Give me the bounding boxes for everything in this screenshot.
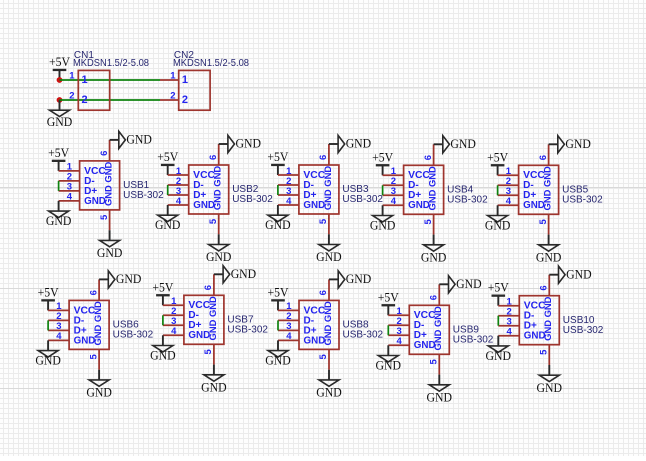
wire D+/D- jumper at USB2	[167, 185, 169, 195]
svg-text:4: 4	[397, 336, 403, 347]
junction dot node +5V	[57, 77, 63, 83]
connector USB10 body	[519, 296, 559, 345]
ground at pin 5 of USB5	[536, 235, 562, 265]
connector USB4 body	[404, 165, 444, 214]
ground at pin 6 of USB7	[214, 266, 256, 283]
svg-text:GND: GND	[116, 272, 142, 286]
part labels USB9 USB-302	[453, 325, 494, 346]
+5V supply for USB4	[372, 150, 393, 175]
wire pin 6 of USB3	[328, 144, 330, 165]
svg-text:GND: GND	[126, 133, 152, 147]
svg-text:5: 5	[539, 349, 550, 355]
svg-text:GND: GND	[486, 349, 512, 363]
svg-text:4: 4	[507, 327, 513, 338]
wire pin 6 of USB10	[548, 275, 550, 296]
svg-text:GND: GND	[47, 115, 73, 129]
svg-text:MKDSN1.5/2-5.08: MKDSN1.5/2-5.08	[173, 58, 249, 69]
wire pin 5 of USB10	[548, 345, 550, 365]
svg-text:5: 5	[538, 218, 549, 224]
wire pin 6 of USB8	[328, 279, 330, 300]
wire pin 6 of USB9	[438, 284, 440, 305]
wire pin 6 of USB7	[213, 274, 215, 295]
pin number 5 of USB3	[318, 218, 329, 224]
ground at pin 4 of USB1	[46, 201, 72, 228]
pin numbers 1-4 of USB7	[171, 296, 177, 337]
+5V supply for USB5	[487, 150, 508, 175]
svg-text:USB-302: USB-302	[123, 190, 164, 201]
pin numbers of CN2	[170, 71, 176, 102]
svg-text:4: 4	[286, 331, 292, 342]
svg-text:GND: GND	[450, 137, 476, 151]
svg-text:1: 1	[82, 74, 88, 86]
svg-text:1: 1	[69, 71, 75, 82]
wire pin 5 of USB1	[109, 210, 111, 230]
wire pin 5 of USB7	[213, 344, 215, 364]
svg-text:4: 4	[56, 331, 62, 342]
svg-text:GND: GND	[155, 218, 181, 232]
svg-text:2: 2	[82, 94, 88, 106]
svg-text:GND: GND	[456, 277, 482, 291]
pin number 6 of USB9	[429, 295, 440, 300]
wire D+/D- jumper at USB6	[47, 320, 49, 330]
svg-text:GND: GND	[46, 214, 72, 228]
wire pin stubs of USB8 (pins 1-4)	[278, 310, 299, 340]
svg-text:6: 6	[318, 290, 329, 295]
svg-text:GND: GND	[35, 354, 61, 368]
part labels USB3 USB-302	[342, 184, 383, 205]
wire D+/D- jumper at USB3	[277, 185, 279, 195]
pin number 6 of USB6	[88, 290, 99, 295]
svg-text:4: 4	[176, 196, 182, 207]
svg-text:+5V: +5V	[268, 285, 289, 299]
wire pin 5 of USB4	[433, 214, 435, 234]
ground at pin 6 of USB5	[549, 136, 591, 153]
ground at pin 5 of USB6	[86, 370, 112, 400]
svg-text:4: 4	[286, 196, 292, 207]
svg-text:MKDSN1.5/2-5.08: MKDSN1.5/2-5.08	[73, 58, 149, 69]
part labels USB2 USB-302	[232, 184, 273, 205]
part labels USB10 USB-302	[563, 315, 604, 336]
svg-text:+5V: +5V	[488, 281, 509, 295]
svg-text:GND: GND	[370, 219, 396, 233]
svg-text:5: 5	[318, 354, 329, 360]
svg-text:GND GND: GND GND	[432, 306, 443, 351]
+5V supply for USB8	[268, 285, 289, 310]
connector USB7 body	[184, 295, 224, 344]
svg-text:GND: GND	[536, 250, 562, 264]
wire pin stubs of USB3 (pins 1-4)	[278, 175, 299, 205]
+5V supply for USB1	[48, 146, 69, 171]
pin number 5 of USB4	[423, 218, 434, 224]
svg-text:GND GND: GND GND	[542, 166, 553, 211]
connector CN1 body	[78, 70, 109, 110]
ground at pin 5 of USB2	[206, 234, 232, 264]
svg-text:GND GND: GND GND	[103, 162, 114, 207]
pin numbers 1-4 of USB1	[67, 162, 73, 203]
svg-text:USB-302: USB-302	[232, 194, 273, 205]
ground at pin 4 of USB3	[265, 205, 291, 232]
ground at pin 6 of USB6	[99, 271, 141, 288]
svg-text:1: 1	[170, 71, 176, 82]
wire pin 6 of USB5	[548, 144, 550, 165]
svg-text:5: 5	[99, 214, 110, 220]
ground at pin 6 of USB4	[434, 136, 476, 153]
pin number 5 of USB8	[318, 354, 329, 360]
junction dot node GND	[57, 97, 63, 103]
wire pin 6 of USB6	[98, 279, 100, 300]
wire net +5V from CN1 to CN2 pin 1	[60, 79, 161, 81]
wire pin stubs of USB9 (pins 1-4)	[388, 315, 409, 345]
svg-text:GND: GND	[206, 250, 232, 264]
connector USB9 body	[409, 305, 449, 354]
ground at pin 6 of USB10	[549, 266, 591, 283]
+5V supply for CN1 pin 1	[49, 55, 70, 80]
wire D+/D- jumper at USB7	[162, 315, 164, 325]
part labels USB1 USB-302	[123, 180, 164, 201]
svg-text:GND: GND	[427, 390, 453, 404]
ground at pin 5 of USB7	[201, 365, 227, 395]
svg-text:+5V: +5V	[267, 150, 288, 164]
+5V supply for USB7	[152, 280, 173, 305]
ground at pin 6 of USB9	[439, 276, 481, 293]
wire pin stubs of USB6 (pins 1-4)	[48, 310, 69, 340]
ground at pin 6 of USB8	[329, 271, 371, 288]
part labels USB8 USB-302	[343, 320, 384, 341]
ground at pin 4 of USB4	[370, 205, 396, 232]
svg-text:USB-302: USB-302	[113, 330, 154, 341]
svg-text:5: 5	[203, 348, 214, 354]
connector USB1 body	[80, 161, 120, 210]
svg-text:5: 5	[318, 218, 329, 224]
pin numbers of CN1	[69, 71, 75, 102]
ground at pin 5 of USB3	[316, 234, 342, 264]
svg-text:GND: GND	[346, 137, 372, 151]
pin number 5 of USB7	[203, 348, 214, 354]
ground at pin 6 of USB3	[329, 135, 371, 152]
svg-text:4: 4	[67, 192, 73, 203]
svg-text:5: 5	[88, 354, 99, 360]
wire pin 5 of USB5	[548, 214, 550, 234]
svg-text:GND: GND	[346, 272, 372, 286]
wire pin 5 of USB2	[218, 214, 220, 234]
svg-text:4: 4	[506, 196, 512, 207]
wire pin stubs of CN2	[160, 80, 179, 100]
wire pin 6 of USB2	[218, 144, 220, 165]
svg-text:GND: GND	[97, 246, 123, 260]
ground at pin 5 of USB8	[316, 370, 342, 400]
svg-text:USB-302: USB-302	[342, 194, 383, 205]
svg-text:+5V: +5V	[48, 146, 69, 160]
ground at CN1 pin 2	[47, 100, 73, 129]
svg-text:GND: GND	[421, 250, 447, 264]
svg-text:4: 4	[391, 196, 397, 207]
svg-text:5: 5	[429, 358, 440, 364]
wire D+/D- jumper at USB9	[387, 325, 389, 335]
pin number 6 of USB7	[203, 285, 214, 290]
svg-text:6: 6	[538, 155, 549, 160]
+5V supply for USB9	[378, 290, 399, 315]
svg-text:6: 6	[99, 151, 110, 156]
pin number 5 of USB9	[429, 358, 440, 364]
ground at pin 5 of USB1	[97, 230, 123, 260]
svg-text:+5V: +5V	[49, 55, 70, 69]
wire D+/D- jumper at USB10	[497, 316, 499, 326]
svg-text:GND: GND	[316, 250, 342, 264]
pin numbers 1-4 of USB4	[391, 166, 397, 207]
wire pin 5 of USB6	[98, 349, 100, 369]
svg-text:GND GND: GND GND	[542, 296, 553, 341]
svg-text:6: 6	[203, 285, 214, 290]
svg-text:4: 4	[171, 326, 177, 337]
ground at pin 4 of USB9	[376, 345, 402, 372]
ground at pin 4 of USB8	[265, 340, 291, 367]
pin number 5 of USB1	[99, 214, 110, 220]
wire net GND from CN1 to CN2 pin 2	[60, 99, 161, 101]
pin numbers 1-4 of USB9	[397, 306, 403, 347]
svg-text:GND: GND	[201, 380, 227, 394]
svg-text:6: 6	[88, 290, 99, 295]
+5V supply for USB2	[157, 150, 178, 175]
pin numbers 1-4 of USB2	[176, 166, 182, 207]
connector CN2 body	[179, 70, 210, 110]
wire pin 6 of USB1	[109, 140, 111, 161]
svg-text:2: 2	[69, 91, 74, 102]
svg-text:GND GND: GND GND	[322, 301, 333, 346]
ground at pin 6 of USB2	[219, 135, 261, 152]
part labels USB7 USB-302	[227, 315, 268, 336]
svg-text:USB-302: USB-302	[453, 335, 494, 346]
svg-text:6: 6	[539, 285, 550, 290]
svg-text:+5V: +5V	[157, 150, 178, 164]
pin number 6 of USB8	[318, 290, 329, 295]
wire pin stubs of USB4 (pins 1-4)	[383, 175, 404, 205]
svg-text:6: 6	[318, 155, 329, 160]
wire pin 6 of USB4	[433, 144, 435, 165]
+5V supply for USB3	[267, 150, 288, 175]
svg-text:GND GND: GND GND	[92, 301, 103, 346]
ground at pin 5 of USB9	[427, 375, 453, 405]
svg-text:GND: GND	[86, 386, 112, 400]
svg-text:GND: GND	[537, 381, 563, 395]
connector USB5 body	[519, 165, 559, 214]
wire pin stubs of USB2 (pins 1-4)	[168, 175, 189, 205]
svg-text:GND: GND	[236, 137, 262, 151]
pin number 5 of USB2	[208, 218, 219, 224]
svg-text:GND: GND	[565, 137, 591, 151]
wire pin 5 of USB9	[438, 354, 440, 374]
svg-text:GND: GND	[265, 354, 291, 368]
svg-text:GND: GND	[150, 349, 176, 363]
pin numbers 1-4 of USB5	[506, 166, 512, 207]
part labels CN2 MKDSN1.5/2-5.08	[173, 50, 249, 69]
svg-text:USB-302: USB-302	[447, 195, 488, 206]
svg-text:5: 5	[208, 218, 219, 224]
wire D+/D- jumper at USB1	[58, 181, 60, 191]
+5V supply for USB6	[38, 285, 59, 310]
svg-text:5: 5	[423, 218, 434, 224]
svg-text:USB-302: USB-302	[343, 330, 384, 341]
wire D+/D- jumper at USB4	[382, 185, 384, 195]
part labels USB6 USB-302	[113, 320, 154, 341]
svg-text:GND GND: GND GND	[427, 166, 438, 211]
svg-text:GND: GND	[265, 218, 291, 232]
wire D+/D- jumper at USB5	[497, 185, 499, 195]
wire D+/D- jumper at USB8	[277, 320, 279, 330]
svg-text:6: 6	[423, 155, 434, 160]
svg-text:GND: GND	[566, 267, 592, 281]
wire pin stubs of USB7 (pins 1-4)	[163, 305, 184, 335]
pin number 6 of USB4	[423, 155, 434, 160]
svg-text:+5V: +5V	[152, 280, 173, 294]
ground at pin 5 of USB4	[421, 235, 447, 265]
connector USB6 body	[69, 300, 109, 349]
wire pin stubs of USB1 (pins 1-4)	[59, 171, 80, 201]
+5V supply for USB10	[488, 281, 509, 306]
connector USB8 body	[299, 300, 339, 349]
ground at pin 4 of USB10	[486, 336, 512, 363]
pin numbers 1-4 of USB6	[56, 301, 62, 342]
part labels USB4 USB-302	[447, 185, 488, 206]
pin number 6 of USB10	[539, 285, 550, 290]
pin number 6 of USB2	[208, 155, 219, 160]
pin number 5 of USB10	[539, 349, 550, 355]
pin numbers 1-4 of USB3	[286, 166, 292, 207]
part labels USB5 USB-302	[562, 185, 603, 206]
pin number 5 of USB6	[88, 354, 99, 360]
svg-text:GND: GND	[485, 219, 511, 233]
svg-text:GND GND: GND GND	[322, 166, 333, 211]
svg-text:+5V: +5V	[38, 285, 59, 299]
part labels CN1 MKDSN1.5/2-5.08	[73, 50, 149, 69]
ground at pin 4 of USB6	[35, 340, 61, 367]
svg-text:+5V: +5V	[378, 290, 399, 304]
wire pin stubs of USB5 (pins 1-4)	[498, 175, 519, 205]
wire pin 5 of USB8	[328, 349, 330, 369]
ground at pin 6 of USB1	[110, 131, 152, 148]
pin number 6 of USB5	[538, 155, 549, 160]
svg-text:GND GND: GND GND	[212, 166, 223, 211]
svg-text:USB-302: USB-302	[227, 325, 268, 336]
svg-text:2: 2	[182, 94, 188, 106]
pin number 5 of USB5	[538, 218, 549, 224]
svg-text:GND GND: GND GND	[207, 296, 218, 341]
wire pin 5 of USB3	[328, 214, 330, 234]
ground at pin 4 of USB2	[155, 205, 181, 232]
svg-text:+5V: +5V	[487, 150, 508, 164]
pin number 6 of USB1	[99, 151, 110, 156]
svg-text:6: 6	[208, 155, 219, 160]
svg-text:GND: GND	[231, 267, 257, 281]
wire pin stubs of USB10 (pins 1-4)	[498, 306, 519, 336]
connector USB3 body	[299, 165, 339, 214]
ground at pin 4 of USB7	[150, 335, 176, 362]
pin numbers 1-4 of USB8	[286, 301, 292, 342]
svg-text:USB-302: USB-302	[562, 195, 603, 206]
connector USB2 body	[189, 165, 229, 214]
svg-text:USB-302: USB-302	[563, 325, 604, 336]
svg-text:GND: GND	[376, 359, 402, 373]
pin number 6 of USB3	[318, 155, 329, 160]
svg-text:2: 2	[170, 91, 175, 102]
svg-text:6: 6	[429, 295, 440, 300]
svg-text:1: 1	[182, 74, 188, 86]
pin numbers 1-4 of USB10	[507, 297, 513, 338]
svg-text:+5V: +5V	[372, 150, 393, 164]
svg-text:GND: GND	[316, 386, 342, 400]
ground at pin 5 of USB10	[537, 365, 563, 395]
ground at pin 4 of USB5	[485, 205, 511, 232]
